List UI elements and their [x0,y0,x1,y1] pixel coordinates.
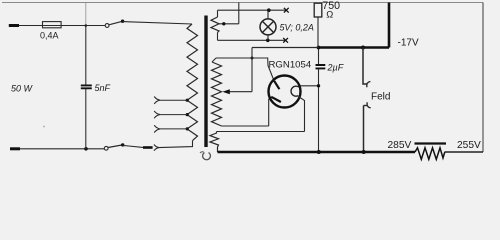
svg-text:5V; 0,2A: 5V; 0,2A [280,23,314,33]
svg-text:Ω: Ω [326,8,333,19]
svg-text:Feld: Feld [371,92,390,103]
svg-text:-17V: -17V [398,38,419,49]
svg-text:285V: 285V [388,140,412,151]
svg-text:2µF: 2µF [327,63,344,73]
svg-text:50 W: 50 W [11,84,34,94]
svg-text:5nF: 5nF [95,83,111,93]
svg-text:RGN1054: RGN1054 [269,60,312,71]
svg-text:0,4A: 0,4A [40,30,59,40]
svg-text:255V: 255V [457,140,481,151]
